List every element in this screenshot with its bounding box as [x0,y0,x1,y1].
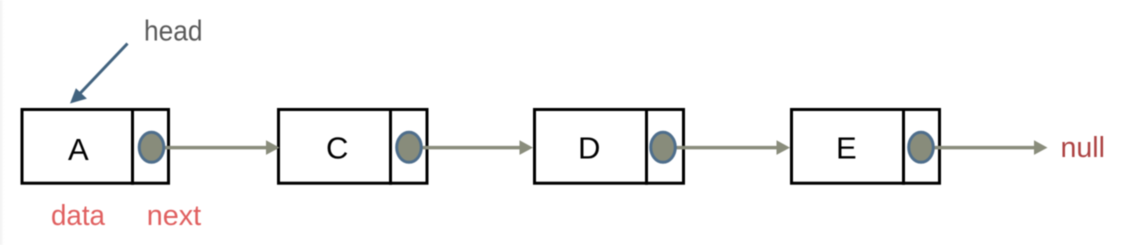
svg-text:A: A [68,132,89,167]
svg-text:data: data [51,200,106,232]
svg-text:null: null [1061,132,1106,164]
svg-text:next: next [147,200,202,232]
svg-text:head: head [144,16,203,48]
svg-text:C: C [326,131,348,166]
svg-text:E: E [836,131,857,166]
svg-text:D: D [578,131,600,166]
